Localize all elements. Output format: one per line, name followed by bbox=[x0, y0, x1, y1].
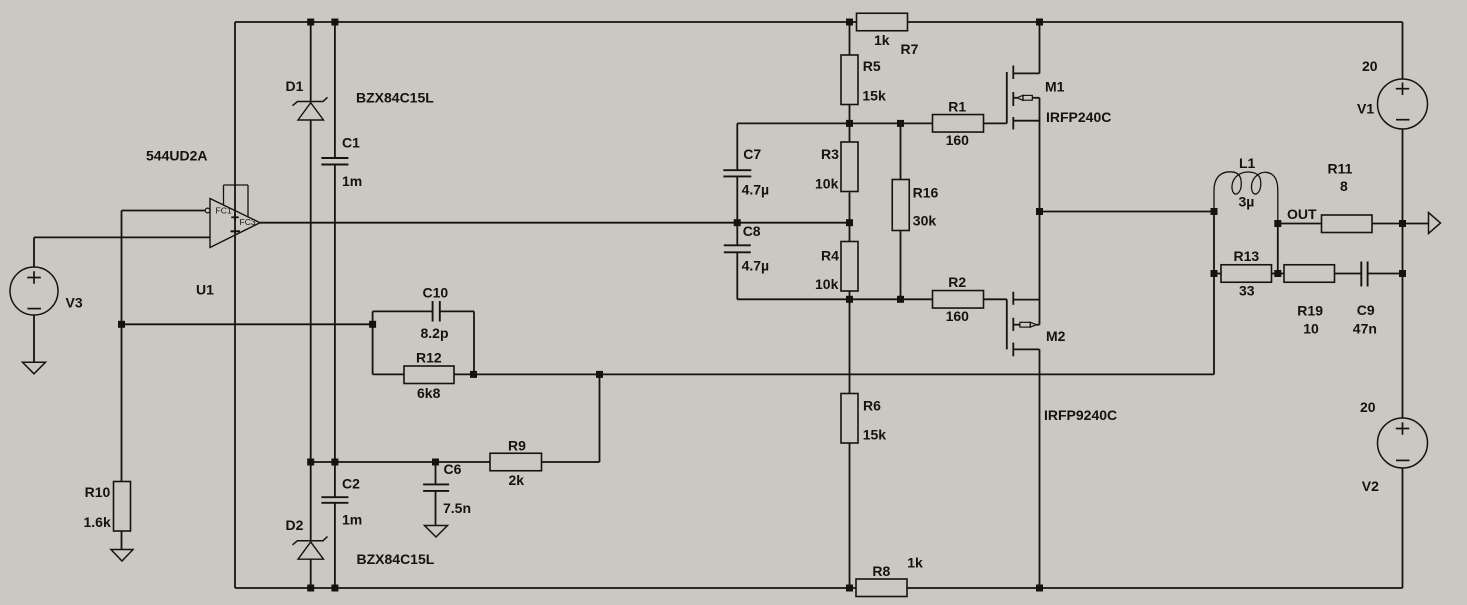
svg-text:30k: 30k bbox=[913, 212, 937, 228]
svg-text:IRFP9240C: IRFP9240C bbox=[1044, 407, 1117, 423]
svg-text:IRFP240C: IRFP240C bbox=[1046, 109, 1111, 125]
svg-text:BZX84C15L: BZX84C15L bbox=[357, 551, 435, 567]
svg-text:1.6k: 1.6k bbox=[84, 514, 111, 530]
svg-text:L1: L1 bbox=[1239, 155, 1256, 171]
svg-text:R16: R16 bbox=[913, 185, 939, 201]
svg-text:BZX84C15L: BZX84C15L bbox=[356, 89, 434, 105]
svg-text:C10: C10 bbox=[423, 284, 449, 300]
svg-text:7.5n: 7.5n bbox=[443, 500, 471, 516]
svg-text:544UD2A: 544UD2A bbox=[146, 147, 207, 163]
svg-text:R10: R10 bbox=[85, 484, 111, 500]
svg-text:10k: 10k bbox=[815, 176, 839, 192]
svg-text:R13: R13 bbox=[1234, 248, 1260, 264]
svg-text:D2: D2 bbox=[286, 517, 304, 533]
svg-text:R8: R8 bbox=[872, 563, 890, 579]
svg-text:4.7µ: 4.7µ bbox=[742, 181, 770, 197]
svg-text:1k: 1k bbox=[907, 555, 923, 571]
svg-text:R9: R9 bbox=[508, 437, 526, 453]
svg-text:R11: R11 bbox=[1328, 161, 1353, 177]
svg-text:R2: R2 bbox=[948, 274, 966, 290]
svg-text:R5: R5 bbox=[863, 58, 881, 74]
svg-text:1m: 1m bbox=[342, 512, 362, 528]
svg-text:10k: 10k bbox=[815, 276, 839, 292]
svg-text:C7: C7 bbox=[743, 146, 761, 162]
svg-text:4.7µ: 4.7µ bbox=[742, 257, 770, 273]
svg-text:20: 20 bbox=[1362, 58, 1378, 74]
svg-text:2k: 2k bbox=[509, 472, 525, 488]
svg-text:160: 160 bbox=[946, 132, 970, 148]
svg-text:10: 10 bbox=[1303, 321, 1319, 337]
svg-text:20: 20 bbox=[1360, 399, 1376, 415]
svg-text:C2: C2 bbox=[342, 476, 360, 492]
svg-text:160: 160 bbox=[946, 308, 970, 324]
svg-text:33: 33 bbox=[1239, 283, 1255, 299]
svg-text:8.2p: 8.2p bbox=[421, 325, 449, 341]
svg-text:6k8: 6k8 bbox=[417, 385, 441, 401]
svg-text:R3: R3 bbox=[821, 146, 839, 162]
svg-text:1k: 1k bbox=[874, 32, 890, 48]
svg-text:3µ: 3µ bbox=[1239, 194, 1255, 210]
svg-text:R1: R1 bbox=[948, 98, 966, 114]
svg-text:V3: V3 bbox=[66, 294, 83, 310]
svg-text:C1: C1 bbox=[342, 134, 360, 150]
svg-text:R4: R4 bbox=[821, 248, 839, 264]
svg-text:1m: 1m bbox=[342, 173, 362, 189]
svg-text:M2: M2 bbox=[1046, 328, 1066, 344]
svg-text:V2: V2 bbox=[1362, 478, 1379, 494]
svg-text:OUT: OUT bbox=[1287, 206, 1317, 222]
svg-text:C8: C8 bbox=[743, 223, 761, 239]
svg-text:R19: R19 bbox=[1297, 302, 1323, 318]
svg-text:8: 8 bbox=[1340, 178, 1348, 194]
svg-text:R12: R12 bbox=[416, 350, 442, 366]
svg-text:M1: M1 bbox=[1045, 78, 1065, 94]
svg-text:R7: R7 bbox=[901, 41, 919, 57]
svg-text:V1: V1 bbox=[1357, 100, 1374, 116]
svg-text:FC3: FC3 bbox=[240, 217, 256, 227]
svg-text:R6: R6 bbox=[863, 398, 881, 414]
svg-text:FC1: FC1 bbox=[216, 206, 232, 216]
svg-text:U1: U1 bbox=[196, 282, 214, 298]
svg-text:47n: 47n bbox=[1353, 321, 1377, 337]
svg-text:D1: D1 bbox=[286, 78, 304, 94]
svg-text:C6: C6 bbox=[444, 461, 462, 477]
svg-text:C9: C9 bbox=[1357, 302, 1375, 318]
svg-text:15k: 15k bbox=[862, 87, 886, 103]
svg-text:15k: 15k bbox=[863, 427, 887, 443]
